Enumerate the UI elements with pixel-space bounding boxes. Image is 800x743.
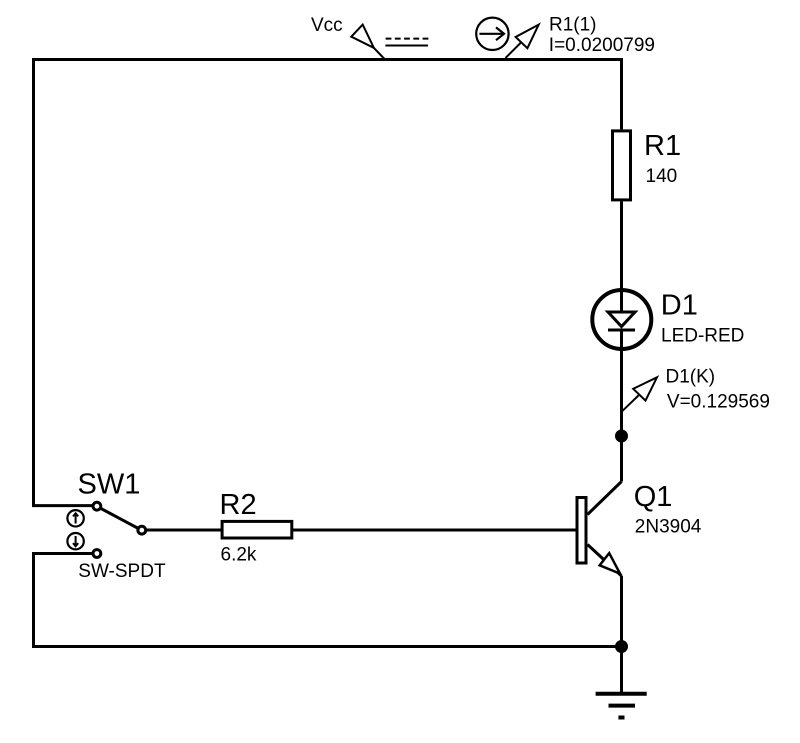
wire base net (switch common to base): [147, 529, 576, 532]
current probe R1(1): [476, 18, 539, 58]
svg-text:V=0.129569: V=0.129569: [667, 392, 770, 413]
wire bottom loop (switch lower contact to ground net): [34, 554, 622, 647]
LED D1: [592, 290, 651, 349]
svg-text:2N3904: 2N3904: [635, 517, 702, 538]
svg-text:R2: R2: [220, 489, 257, 521]
svg-text:D1(K): D1(K): [666, 367, 716, 388]
node junction dot collector net: [615, 430, 628, 443]
node Vcc power terminal: [351, 25, 428, 59]
wire LED to collector: [620, 330, 623, 482]
svg-text:Q1: Q1: [634, 481, 673, 513]
svg-text:R1(1): R1(1): [549, 15, 597, 36]
wire emitter down: [620, 576, 623, 647]
svg-text:R1: R1: [644, 130, 681, 162]
transistor Q1: [577, 482, 622, 577]
resistor R2: [222, 521, 292, 538]
svg-text:6.2k: 6.2k: [221, 545, 257, 566]
switch SW1 down actuator: [67, 533, 83, 549]
resistor R1: [613, 131, 631, 200]
svg-text:SW-SPDT: SW-SPDT: [78, 561, 166, 582]
wire Vcc top loop (left rail, top rail, down to R1): [34, 60, 622, 506]
svg-text:Vcc: Vcc: [311, 15, 343, 36]
svg-text:I=0.0200799: I=0.0200799: [549, 35, 655, 56]
switch SW1: [93, 502, 146, 557]
wire R1 to LED: [620, 201, 623, 311]
switch SW1 up actuator: [67, 510, 83, 526]
ground: [596, 647, 647, 718]
node junction dot ground net: [615, 640, 628, 653]
svg-text:D1: D1: [661, 290, 698, 322]
svg-text:140: 140: [646, 166, 678, 187]
svg-text:LED-RED: LED-RED: [661, 326, 744, 347]
voltage probe D1(K): [622, 377, 657, 411]
svg-text:SW1: SW1: [78, 469, 141, 501]
